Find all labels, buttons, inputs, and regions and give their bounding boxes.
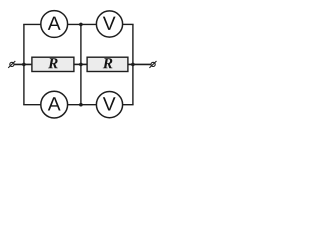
wire: middle row, left terminal to resistor R1 [14, 63, 31, 65]
label A (ammeter A2) [48, 97, 61, 110]
junction dot: center node on bottom wire [79, 103, 83, 107]
wire: left vertical branch [23, 24, 25, 104]
label A (ammeter A1) [48, 17, 61, 30]
wire: top middle horizontal (A1 to V1) [68, 23, 97, 25]
wire: top-right horizontal (V1 to right branch) [123, 23, 134, 25]
wire: bottom-left horizontal (left branch to ammeter A2) [23, 104, 41, 106]
junction dot: center node on top wire [79, 23, 83, 27]
terminal (left input) [8, 61, 15, 68]
voltmeter V2 (bottom) [96, 92, 122, 118]
terminal (right output) [149, 61, 156, 68]
resistor R1 (left) [32, 57, 74, 71]
wire: right vertical branch [132, 24, 134, 104]
wire: bottom middle horizontal (A2 to V2) [68, 104, 97, 106]
label V (voltmeter V1) [103, 17, 116, 30]
junction dot: center node on middle wire [79, 63, 83, 67]
ammeter A1 (top) [41, 11, 68, 38]
junction dot: right node on middle wire [131, 63, 135, 67]
resistor R2 (right) [87, 57, 128, 71]
junction dot: left node on middle wire [22, 63, 26, 67]
wire: middle row, resistor R2 to right terminal [128, 63, 150, 65]
wire: center vertical branch [80, 24, 82, 104]
wire: bottom-right horizontal (V2 to right branch) [123, 104, 134, 106]
wire: top-left horizontal (left branch to ammeter A1) [23, 23, 41, 25]
value label R (R1) [48, 58, 58, 68]
value label R (R2) [103, 58, 113, 68]
voltmeter V1 (top) [96, 11, 122, 37]
wire: middle row, between resistors [74, 63, 86, 65]
ammeter A2 (bottom) [41, 91, 68, 118]
label V (voltmeter V2) [103, 97, 116, 110]
